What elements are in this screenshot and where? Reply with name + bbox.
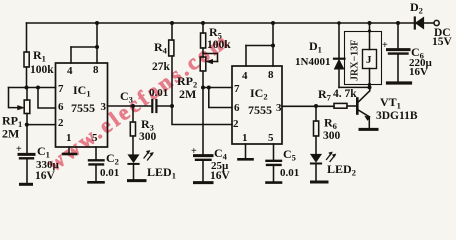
transistor Q1 VT1: [356, 99, 359, 114]
svg-text:0.01: 0.01: [280, 167, 299, 179]
svg-text:4. 7k: 4. 7k: [333, 88, 357, 100]
watermark www.elecfans.com: [42, 27, 234, 176]
svg-text:+: +: [191, 146, 197, 157]
ground C1: [21, 183, 32, 186]
svg-text:6: 6: [234, 102, 240, 114]
capacitor C6: [397, 23, 399, 48]
diode D1: [338, 23, 340, 59]
resistor R5 column: [202, 23, 204, 33]
svg-text:JRX−13F: JRX−13F: [350, 40, 361, 81]
potentiometer RP2: [200, 57, 206, 71]
wire pin7 node horizontal: [9, 87, 56, 89]
IC U2 IC2 7555 box: [232, 66, 282, 144]
wire left column from rail to R1: [26, 23, 28, 52]
node junction branch to pin6: [36, 86, 40, 90]
svg-text:7: 7: [234, 83, 240, 95]
svg-text:8: 8: [93, 64, 99, 76]
node junction C3-R4-pin2: [170, 104, 174, 108]
svg-text:2: 2: [233, 118, 239, 130]
LED LED1: [128, 155, 138, 162]
LED2 light arrows: [327, 153, 336, 162]
svg-text:6: 6: [58, 101, 64, 113]
wire IC2 pin1 ground stub: [245, 144, 247, 159]
terminal DC input: [434, 20, 439, 25]
capacitor C4: [195, 154, 213, 157]
svg-text:J: J: [366, 54, 372, 66]
wire IC2 pin7: [203, 87, 232, 89]
node junction RP2 bottom pin7: [201, 86, 205, 90]
svg-text:300: 300: [139, 131, 157, 143]
wire IC1 pin1 ground stub: [68, 147, 70, 154]
label IC2 pins: [233, 69, 282, 144]
svg-text:4: 4: [67, 65, 73, 77]
node junction pin3-R6: [314, 104, 318, 108]
svg-text:100k: 100k: [207, 39, 231, 51]
wire IC1 pin2: [27, 124, 56, 126]
wire branch to IC1 pin 6: [38, 88, 56, 109]
wire IC2 pin3 output: [282, 105, 334, 107]
node junction pin3-R3: [131, 104, 135, 108]
wire top supply rail: [27, 22, 416, 24]
capacitor C1: [19, 153, 34, 156]
svg-text:LED1: LED1: [147, 165, 176, 181]
svg-text:LED2: LED2: [327, 162, 356, 178]
svg-text:8: 8: [268, 69, 274, 81]
svg-text:2: 2: [58, 117, 64, 129]
relay outline box: [345, 32, 382, 85]
ground C4: [195, 181, 213, 184]
wire IC1 pin5 to C2: [95, 147, 97, 160]
svg-text:100k: 100k: [30, 64, 54, 76]
capacitor C5: [267, 160, 282, 162]
svg-text:27k: 27k: [152, 61, 171, 73]
svg-text:3: 3: [276, 102, 282, 114]
ground LED1: [129, 179, 146, 182]
wire IC2 pins 4 and 8 to rail: [272, 23, 274, 66]
svg-text:0.01: 0.01: [149, 87, 168, 99]
wire D1 to relay bottom: [339, 86, 370, 88]
resistor R1: [24, 52, 29, 67]
svg-text:16V: 16V: [35, 170, 56, 182]
ground C5: [267, 181, 282, 184]
svg-text:5: 5: [268, 132, 274, 144]
LED LED2: [311, 154, 321, 162]
svg-text:+: +: [16, 144, 22, 155]
svg-text:1: 1: [242, 132, 248, 144]
wire IC1 pin3 output: [108, 105, 152, 107]
svg-text:5: 5: [92, 132, 98, 144]
svg-text:2M: 2M: [2, 127, 19, 141]
svg-text:+: +: [382, 40, 388, 51]
diode D2: [414, 18, 416, 29]
resistor R6 column: [315, 106, 317, 121]
node junction R1-wire: [25, 86, 29, 90]
IC U1 IC1 7555 box: [56, 63, 108, 147]
svg-text:4: 4: [242, 70, 248, 82]
svg-text:15V: 15V: [432, 36, 453, 48]
svg-text:1: 1: [66, 132, 72, 144]
resistor R4 column: [171, 23, 173, 40]
svg-text:7555: 7555: [71, 101, 95, 115]
label IC1 pins: [58, 64, 107, 144]
ground C2: [89, 181, 104, 184]
wire branch to IC2 pin 6: [209, 88, 232, 108]
svg-text:0.01: 0.01: [100, 167, 119, 179]
wire IC1 pins 4 and 8 to rail: [96, 23, 98, 63]
wire IC2 pin2: [172, 106, 232, 125]
svg-text:16V: 16V: [210, 170, 231, 182]
svg-text:7555: 7555: [248, 103, 272, 117]
LED1 light arrows: [144, 152, 153, 161]
ground C6: [388, 81, 411, 84]
svg-text:1N4001: 1N4001: [295, 56, 330, 68]
capacitor C3: [151, 100, 153, 112]
svg-text:7: 7: [58, 83, 64, 95]
ground LED2: [312, 181, 328, 184]
ground VT1 emitter: [360, 128, 377, 131]
wire RP1 wiper loop: [9, 88, 19, 108]
node junction RP1-C1-pin2: [25, 123, 29, 127]
svg-text:3DG11B: 3DG11B: [376, 110, 418, 122]
svg-text:2M: 2M: [179, 87, 196, 101]
relay J coil: [363, 50, 377, 69]
capacitor C2: [89, 159, 104, 161]
svg-text:300: 300: [323, 130, 341, 142]
resistor R3: [132, 106, 134, 122]
wire IC2 pin5 to C5: [273, 144, 275, 160]
resistor R7: [334, 103, 347, 108]
potentiometer RP1: [24, 100, 30, 114]
node junction branch IC2 pin6: [207, 86, 211, 90]
svg-text:3: 3: [101, 101, 107, 113]
svg-text:16V: 16V: [409, 66, 428, 78]
